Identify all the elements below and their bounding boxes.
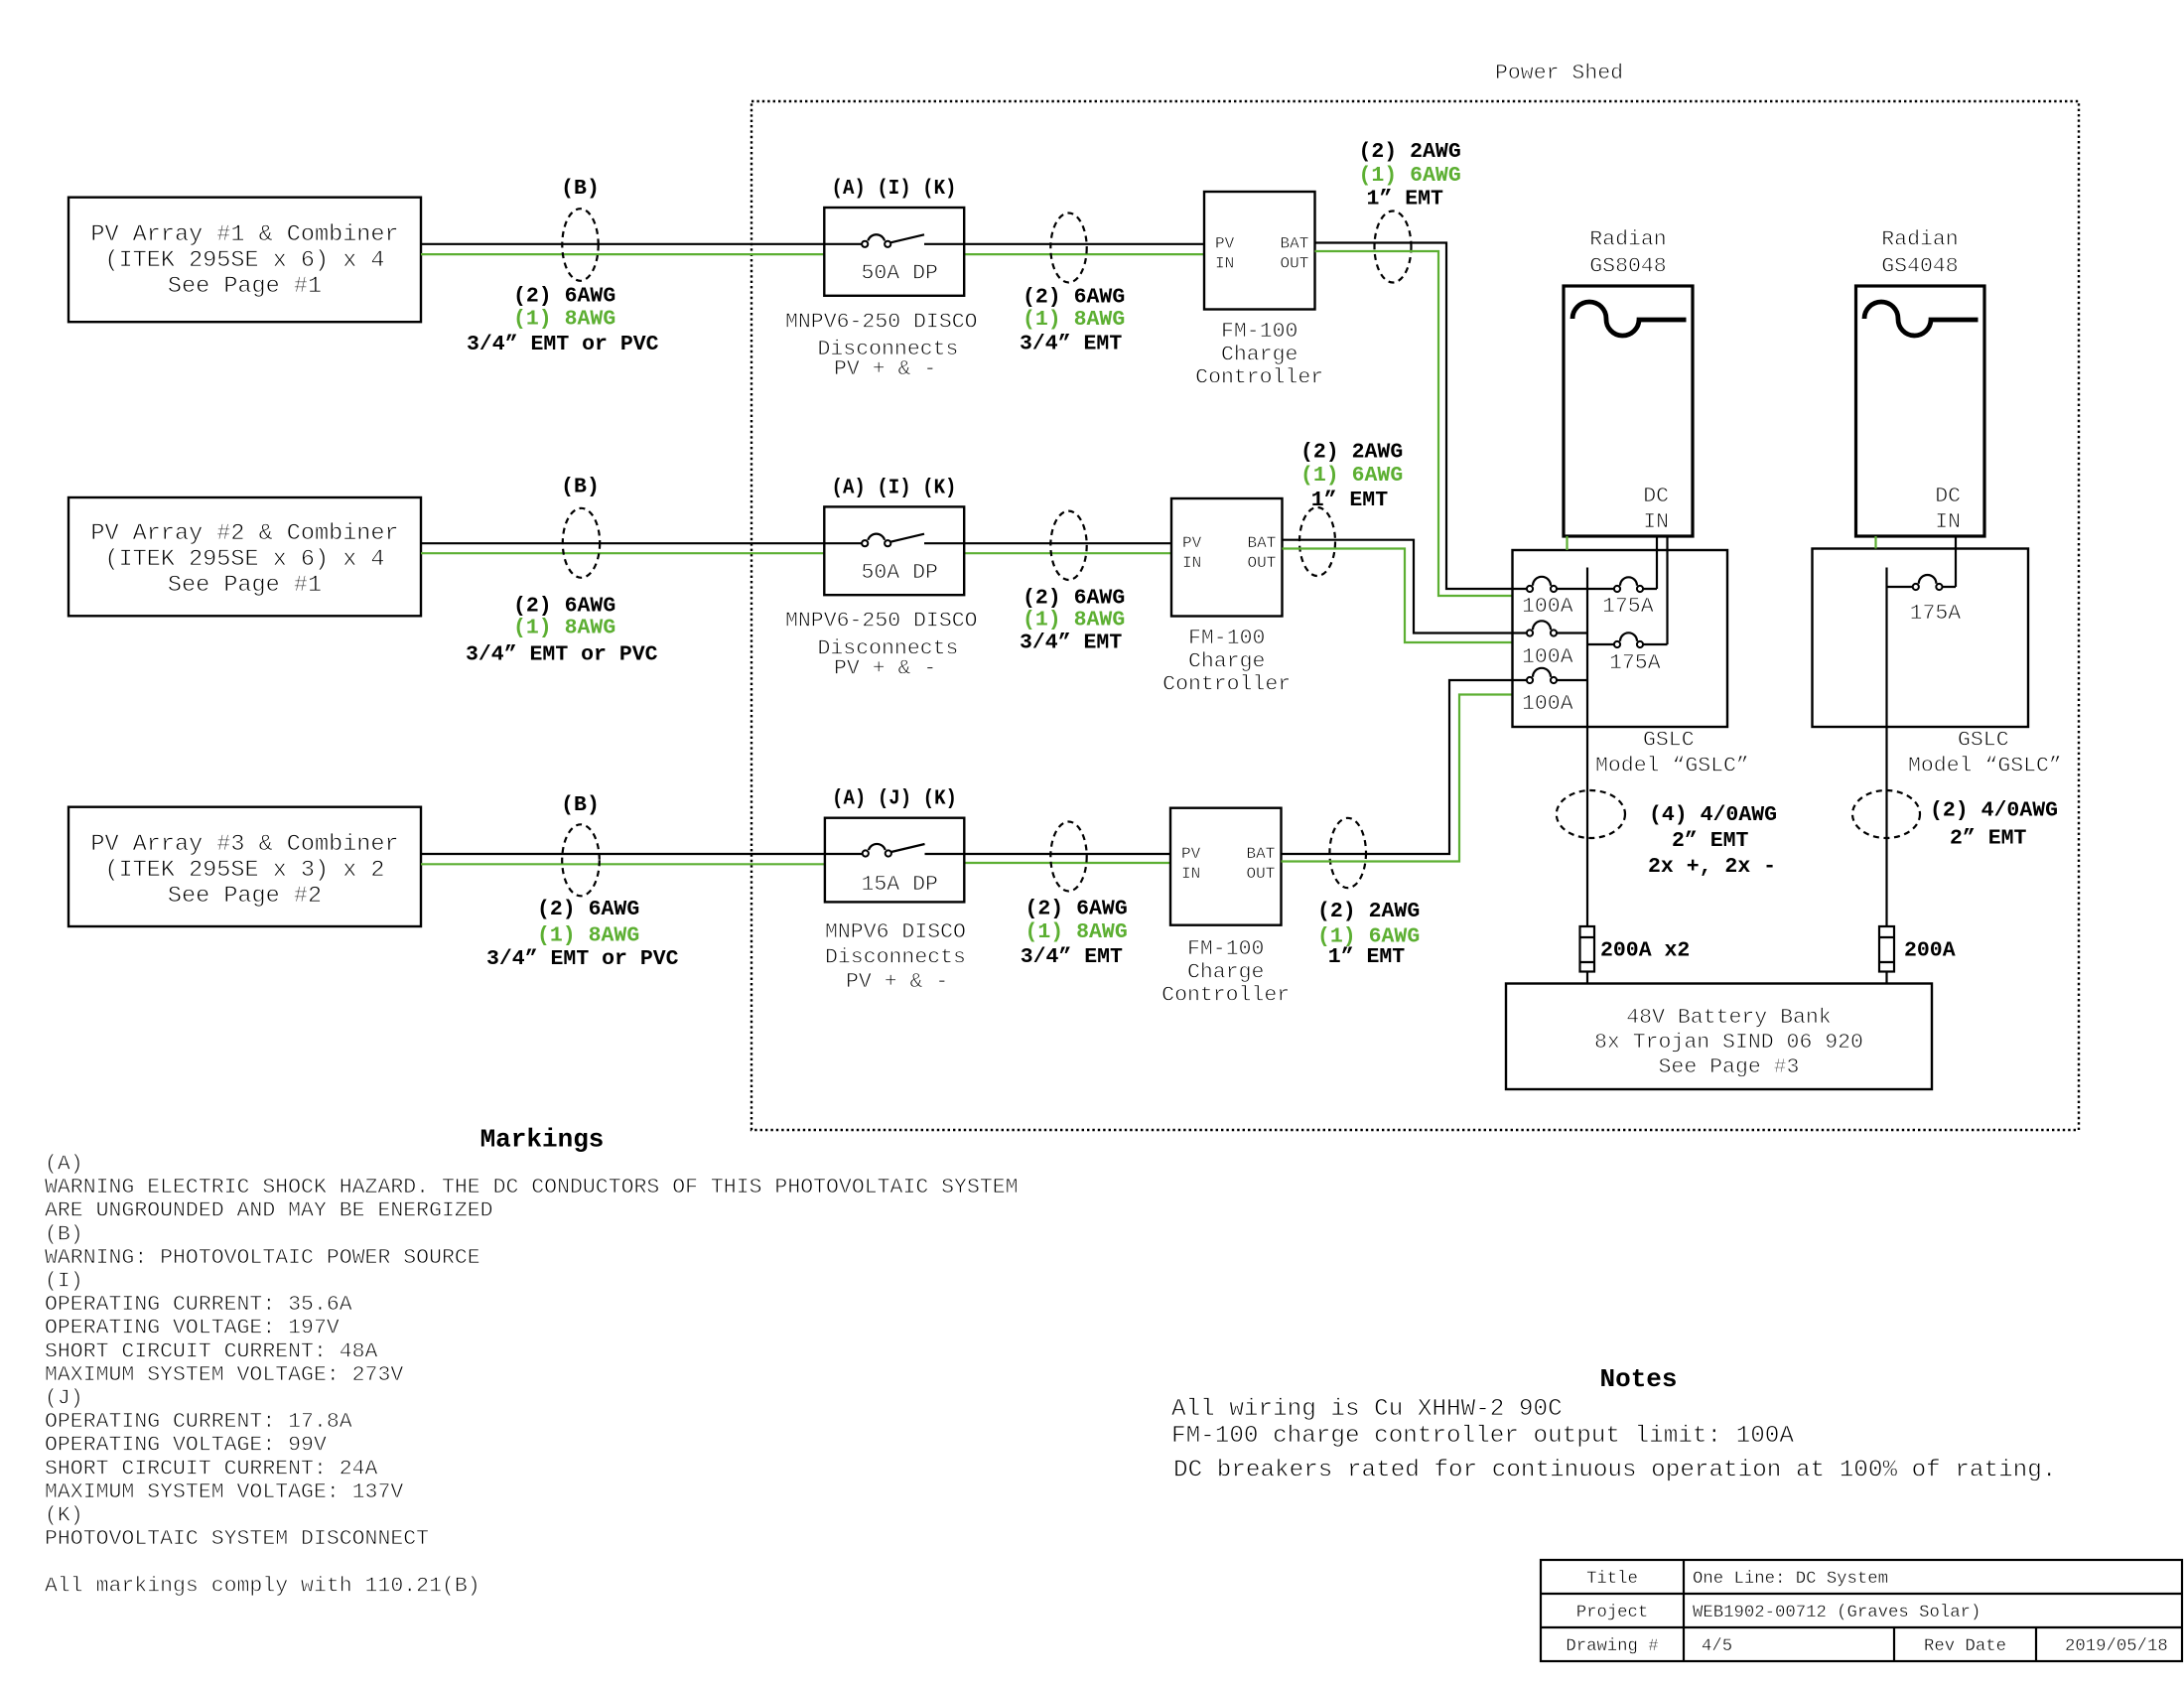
inverter Radian GS8048 box (1564, 286, 1693, 536)
GS8048 ground stub (green) (1566, 536, 1568, 550)
wire S3 to FM-100 #3 (green) (964, 862, 1170, 864)
wire PV3 to S3 (green) (421, 863, 825, 865)
switch S1 blade (890, 234, 924, 242)
svg-text:OUT: OUT (1281, 255, 1309, 273)
notes text (1171, 1396, 2056, 1483)
svg-text:Title: Title (1586, 1570, 1638, 1589)
svg-text:4/5: 4/5 (1702, 1637, 1732, 1656)
svg-text:50A DP: 50A DP (862, 262, 938, 286)
conduit ellipse row2 FM2 output (1299, 507, 1335, 576)
svg-text:(2) 4/0AWG: (2) 4/0AWG (1930, 799, 2058, 823)
svg-text:FM-100: FM-100 (1188, 627, 1265, 650)
svg-text:Notes: Notes (1599, 1364, 1677, 1394)
battery run 1 labels (1648, 803, 1777, 879)
svg-text:PV + & -: PV + & - (846, 970, 948, 994)
disconnect S1 labels (785, 310, 978, 381)
svg-text:(2) 2AWG: (2) 2AWG (1359, 140, 1461, 164)
wire GS8048 DC IN to 175A #2 (1666, 536, 1668, 644)
wire PV2 to S2 (green) (421, 552, 824, 554)
battery bank box (1506, 984, 1932, 1090)
GSLC load center #1 box (1513, 550, 1728, 727)
svg-text:MNPV6-250 DISCO: MNPV6-250 DISCO (785, 310, 978, 334)
conduit ellipse B1 (562, 209, 598, 281)
svg-text:All markings comply with 110.2: All markings comply with 110.21(B) (45, 1574, 480, 1598)
wire PV3 to S3 (black) (421, 853, 862, 855)
GS4048 inverter wave symbol (1864, 302, 1979, 336)
wire S1 to FM-100 #1 (black) (924, 243, 1204, 245)
svg-text:(J): (J) (45, 1387, 83, 1411)
svg-text:2019/05/18: 2019/05/18 (2065, 1637, 2168, 1656)
svg-text:(2) 6AWG: (2) 6AWG (1023, 286, 1125, 310)
svg-text:SHORT CIRCUIT CURRENT: 24A: SHORT CIRCUIT CURRENT: 24A (45, 1457, 378, 1480)
svg-text:2” EMT: 2” EMT (1672, 829, 1749, 853)
wire FM1 BAT OUT to GSLC (green) (1315, 251, 1513, 596)
charge controller FM-100 #3 box (1170, 808, 1282, 925)
svg-text:BAT: BAT (1247, 845, 1276, 863)
svg-text:MAXIMUM SYSTEM VOLTAGE: 137V: MAXIMUM SYSTEM VOLTAGE: 137V (45, 1480, 403, 1504)
PV array #1 combiner box (68, 198, 421, 323)
svg-text:PV Array #3 & Combiner: PV Array #3 & Combiner (90, 831, 398, 858)
svg-text:Radian: Radian (1589, 228, 1666, 252)
charge controller FM-100 #1 box (1204, 192, 1315, 310)
svg-text:PV + & -: PV + & - (834, 357, 936, 381)
svg-text:Radian: Radian (1881, 228, 1958, 252)
svg-text:2x +, 2x -: 2x +, 2x - (1648, 855, 1776, 879)
svg-text:Disconnects: Disconnects (825, 945, 966, 969)
svg-text:MNPV6-250 DISCO: MNPV6-250 DISCO (785, 610, 978, 633)
wire S1 to FM-100 #1 (green) (964, 253, 1204, 255)
switch S1 left terminal (862, 241, 868, 247)
switch S3 blade (891, 844, 925, 852)
svg-text:Model “GSLC”: Model “GSLC” (1908, 755, 2062, 778)
svg-text:50A DP: 50A DP (862, 561, 938, 585)
PV array #2 combiner box (68, 497, 421, 616)
svg-text:GS4048: GS4048 (1881, 255, 1958, 279)
charge controller FM-100 #2 box (1171, 498, 1283, 617)
svg-text:(1) 8AWG: (1) 8AWG (537, 924, 639, 948)
wire GS8048 DC IN to 175A #1 (1656, 536, 1658, 589)
conduit ellipse row1 FM1 output (1375, 211, 1412, 283)
svg-text:MNPV6 DISCO: MNPV6 DISCO (825, 920, 966, 944)
svg-text:175A: 175A (1910, 602, 1962, 626)
switch S3 right terminal (886, 850, 891, 856)
svg-text:Charge: Charge (1221, 343, 1297, 366)
wire size labels row3 FM3 output (1317, 900, 1420, 969)
GSLC1 DC bus (1586, 568, 1588, 927)
svg-text:Markings: Markings (480, 1124, 605, 1154)
svg-text:(1) 6AWG: (1) 6AWG (1300, 464, 1403, 488)
svg-text:(2) 6AWG: (2) 6AWG (1025, 897, 1128, 920)
FM-100 #1 labels (1195, 320, 1323, 390)
wire size labels row3 S3-FM3 (1021, 897, 1128, 969)
svg-text:(2) 6AWG: (2) 6AWG (513, 285, 615, 309)
svg-text:(ITEK 295SE x 6) x 4: (ITEK 295SE x 6) x 4 (104, 546, 384, 573)
svg-text:ARE UNGROUNDED AND MAY BE ENER: ARE UNGROUNDED AND MAY BE ENERGIZED (45, 1199, 493, 1223)
breaker 175A #2 (1587, 633, 1668, 675)
svg-text:Charge: Charge (1187, 960, 1264, 984)
wire size labels row1 FM1 output (1359, 140, 1461, 211)
svg-text:See Page #2: See Page #2 (168, 883, 322, 910)
svg-text:WARNING ELECTRIC SHOCK HAZARD.: WARNING ELECTRIC SHOCK HAZARD. THE DC CO… (45, 1176, 1019, 1199)
svg-text:See Page #1: See Page #1 (168, 572, 322, 599)
wire FM3 BAT OUT to GSLC (green) (1282, 695, 1513, 862)
svg-text:200A x2: 200A x2 (1600, 939, 1690, 963)
breaker 175A #1 (1587, 577, 1657, 619)
conduit ellipse B3 (562, 824, 600, 896)
GS4048 ground stub (green) (1874, 536, 1876, 549)
svg-text:(2) 6AWG: (2) 6AWG (537, 898, 639, 921)
GSLC load center #2 box (1813, 549, 2029, 728)
svg-text:(1) 6AWG: (1) 6AWG (1359, 164, 1461, 188)
switch S2 blade (890, 534, 924, 542)
inverter Radian GS4048 labels (1881, 228, 1958, 279)
wire FM2 BAT OUT to GSLC (green) (1283, 549, 1513, 643)
svg-text:3/4” EMT: 3/4” EMT (1020, 332, 1122, 355)
svg-text:3/4” EMT: 3/4” EMT (1020, 632, 1122, 655)
svg-text:PHOTOVOLTAIC SYSTEM DISCONNECT: PHOTOVOLTAIC SYSTEM DISCONNECT (45, 1527, 429, 1551)
markings text (45, 1153, 1019, 1599)
svg-text:GSLC: GSLC (1643, 729, 1695, 753)
svg-text:PV Array #1 & Combiner: PV Array #1 & Combiner (90, 221, 398, 248)
svg-text:100A: 100A (1522, 692, 1573, 716)
disconnect S2 labels (785, 610, 978, 681)
GS8048 DC IN label (1643, 485, 1669, 534)
svg-text:WEB1902-00712 (Graves Solar): WEB1902-00712 (Graves Solar) (1693, 1604, 1980, 1622)
svg-text:(4) 4/0AWG: (4) 4/0AWG (1649, 803, 1777, 827)
wire size labels row1 S1-FM1 (1020, 286, 1125, 356)
svg-text:(A) (I) (K): (A) (I) (K) (832, 476, 957, 499)
wire fuse F1 to battery (1586, 972, 1588, 984)
svg-text:3/4” EMT or PVC: 3/4” EMT or PVC (486, 947, 679, 971)
conduit ellipse B2 (563, 508, 600, 578)
breaker 175A GSLC2 (1887, 575, 1962, 626)
svg-text:BAT: BAT (1281, 235, 1309, 253)
svg-text:Rev Date: Rev Date (1924, 1637, 2006, 1656)
breaker 100A #3 (1513, 668, 1588, 716)
svg-text:GSLC: GSLC (1958, 729, 2009, 753)
disconnect S3 labels (825, 920, 966, 994)
wire FM1 BAT OUT to GSLC breaker 1 (black) (1315, 243, 1513, 590)
svg-text:2” EMT: 2” EMT (1950, 827, 2027, 851)
conduit ellipse battery run 2 (1852, 790, 1920, 838)
disconnect S2 box 50A DP (824, 506, 964, 595)
svg-text:(A): (A) (45, 1153, 83, 1177)
svg-text:175A: 175A (1602, 595, 1654, 619)
svg-text:FM-100: FM-100 (1221, 320, 1297, 344)
svg-text:See Page #3: See Page #3 (1659, 1055, 1800, 1079)
power shed dashed boundary (751, 101, 2079, 1130)
svg-text:SHORT CIRCUIT CURRENT: 48A: SHORT CIRCUIT CURRENT: 48A (45, 1339, 378, 1363)
svg-text:IN: IN (1181, 865, 1200, 883)
PV array #3 combiner box (68, 807, 421, 926)
svg-text:1” EMT: 1” EMT (1328, 945, 1406, 969)
svg-text:(ITEK 295SE x 6) x 4: (ITEK 295SE x 6) x 4 (104, 247, 384, 274)
wire size labels row2 FM2 output (1300, 441, 1403, 512)
svg-text:One Line: DC System: One Line: DC System (1693, 1570, 1888, 1589)
svg-text:PV: PV (1182, 534, 1202, 552)
svg-text:See Page #1: See Page #1 (168, 273, 322, 300)
wire S3 to FM-100 #3 (black) (925, 853, 1171, 855)
wire FM2 BAT OUT to GSLC breaker 2 (black) (1283, 540, 1513, 633)
svg-text:(1) 8AWG: (1) 8AWG (513, 617, 615, 640)
wire size labels row2 S2-FM2 (1020, 587, 1125, 655)
svg-text:IN: IN (1182, 554, 1201, 572)
svg-text:PV Array #2 & Combiner: PV Array #2 & Combiner (90, 520, 398, 547)
breaker 100A #1 (1513, 577, 1588, 619)
GSLC2 labels (1908, 729, 2062, 778)
svg-text:OPERATING VOLTAGE: 197V: OPERATING VOLTAGE: 197V (45, 1317, 340, 1340)
svg-text:Controller: Controller (1161, 984, 1290, 1008)
svg-text:OUT: OUT (1248, 554, 1277, 572)
svg-text:48V Battery Bank: 48V Battery Bank (1626, 1006, 1831, 1030)
wire PV1 ground (green) to S1 (421, 253, 824, 255)
svg-text:15A DP: 15A DP (862, 873, 938, 897)
svg-text:BAT: BAT (1248, 534, 1277, 552)
svg-text:3/4” EMT or PVC: 3/4” EMT or PVC (467, 333, 659, 356)
svg-text:(A) (I) (K): (A) (I) (K) (832, 177, 957, 201)
svg-text:8x Trojan SIND 06 920: 8x Trojan SIND 06 920 (1594, 1031, 1863, 1055)
svg-text:200A: 200A (1904, 939, 1956, 963)
wire size labels row3 B (486, 898, 679, 971)
svg-text:Project: Project (1576, 1604, 1649, 1622)
svg-text:(ITEK 295SE x 3) x 2: (ITEK 295SE x 3) x 2 (104, 857, 384, 884)
svg-text:(B): (B) (561, 177, 600, 201)
switch S3 arc (869, 844, 886, 850)
svg-text:MAXIMUM SYSTEM VOLTAGE: 273V: MAXIMUM SYSTEM VOLTAGE: 273V (45, 1363, 403, 1387)
battery run 2 labels (1930, 799, 2058, 851)
switch S2 right terminal (885, 540, 890, 546)
wire S2 to FM-100 #2 (green) (964, 552, 1171, 554)
svg-text:GS8048: GS8048 (1589, 255, 1666, 279)
wire PV1 positive (black) to disconnect S1 (421, 243, 862, 245)
svg-text:FM-100 charge controller outpu: FM-100 charge controller output limit: 1… (1171, 1423, 1794, 1450)
svg-text:(I): (I) (45, 1270, 83, 1294)
switch S3 left terminal (863, 850, 869, 856)
wire GS4048 DC IN to 175A (1955, 536, 1957, 587)
title block table (1541, 1560, 2182, 1661)
svg-text:FM-100: FM-100 (1187, 937, 1264, 961)
wire FM3 BAT OUT to GSLC breaker 3 (black) (1282, 680, 1513, 854)
svg-text:(1) 8AWG: (1) 8AWG (1025, 920, 1128, 944)
GS4048 DC IN label (1935, 485, 1961, 534)
switch S1 arc (868, 234, 885, 240)
svg-text:Controller: Controller (1162, 673, 1291, 697)
inverter Radian GS8048 labels (1589, 228, 1666, 279)
breaker 100A #2 (1513, 621, 1588, 669)
svg-text:OPERATING VOLTAGE: 99V: OPERATING VOLTAGE: 99V (45, 1434, 327, 1458)
conduit ellipse row1 S1-FM1 (1050, 213, 1086, 283)
svg-text:(2) 2AWG: (2) 2AWG (1317, 900, 1420, 923)
GS8048 inverter wave symbol (1572, 302, 1687, 336)
wire PV2 to S2 (black) (421, 542, 862, 544)
svg-text:Controller: Controller (1195, 366, 1323, 390)
svg-text:PV + & -: PV + & - (834, 656, 936, 680)
svg-text:3/4” EMT: 3/4” EMT (1021, 945, 1123, 969)
svg-text:Drawing #: Drawing # (1566, 1637, 1658, 1656)
svg-text:(B): (B) (45, 1222, 83, 1246)
svg-text:3/4” EMT or PVC: 3/4” EMT or PVC (466, 642, 658, 666)
svg-text:IN: IN (1935, 510, 1961, 534)
svg-text:OPERATING CURRENT: 17.8A: OPERATING CURRENT: 17.8A (45, 1410, 352, 1434)
svg-text:Model “GSLC”: Model “GSLC” (1595, 755, 1749, 778)
svg-text:175A: 175A (1609, 651, 1661, 675)
fuse F2 200A (1879, 926, 1956, 972)
svg-text:(A) (J) (K): (A) (J) (K) (832, 787, 957, 811)
title block text (1566, 1570, 2167, 1656)
svg-text:PV: PV (1181, 845, 1201, 863)
svg-text:All wiring is Cu XHHW-2 90C: All wiring is Cu XHHW-2 90C (1171, 1396, 1563, 1423)
wire fuse F2 to battery (1885, 972, 1887, 984)
svg-text:IN: IN (1643, 510, 1669, 534)
svg-text:(1) 8AWG: (1) 8AWG (513, 308, 615, 332)
FM-100 #2 labels (1162, 627, 1291, 697)
switch S2 arc (868, 534, 885, 540)
svg-text:(1) 8AWG: (1) 8AWG (1023, 308, 1125, 332)
svg-text:DC breakers rated for continuo: DC breakers rated for continuous operati… (1173, 1458, 2056, 1484)
fuse F1 200A x2 (1580, 926, 1691, 972)
svg-text:DC: DC (1935, 485, 1961, 508)
svg-text:(B): (B) (561, 476, 600, 499)
svg-text:(K): (K) (45, 1504, 83, 1528)
disconnect S1 box 50A DP (824, 208, 964, 296)
switch S1 right terminal (885, 241, 890, 247)
svg-text:100A: 100A (1522, 645, 1573, 669)
svg-text:IN: IN (1215, 255, 1234, 273)
svg-text:DC: DC (1643, 485, 1669, 508)
wire S2 to FM-100 #2 (black) (924, 542, 1171, 544)
wire size labels row2 B (466, 595, 658, 667)
svg-text:(2) 2AWG: (2) 2AWG (1300, 441, 1403, 465)
svg-text:Power Shed: Power Shed (1495, 62, 1623, 85)
svg-text:WARNING: PHOTOVOLTAIC POWER SO: WARNING: PHOTOVOLTAIC POWER SOURCE (45, 1246, 480, 1270)
disconnect S3 box 15A DP (825, 818, 964, 903)
conduit ellipse battery run 1 (1557, 790, 1625, 838)
svg-text:(2) 6AWG: (2) 6AWG (1023, 587, 1125, 611)
inverter Radian GS4048 box (1856, 286, 1985, 536)
conduit ellipse row3 FM3 output (1329, 818, 1366, 888)
conduit ellipse row2 S2-FM2 (1050, 511, 1086, 580)
svg-text:OUT: OUT (1247, 865, 1276, 883)
svg-text:PV: PV (1215, 235, 1235, 253)
svg-text:1” EMT: 1” EMT (1367, 187, 1444, 211)
svg-text:(B): (B) (561, 793, 600, 817)
FM-100 #3 labels (1161, 937, 1290, 1008)
svg-text:Charge: Charge (1188, 649, 1265, 673)
svg-text:(1) 8AWG: (1) 8AWG (1023, 609, 1125, 633)
GSLC1 labels (1595, 729, 1749, 778)
svg-text:(2) 6AWG: (2) 6AWG (513, 595, 615, 619)
svg-text:OPERATING CURRENT: 35.6A: OPERATING CURRENT: 35.6A (45, 1293, 352, 1317)
svg-text:100A: 100A (1522, 595, 1573, 619)
GSLC2 DC bus (1885, 568, 1887, 927)
conduit ellipse row3 S3-FM3 (1050, 822, 1086, 892)
switch S2 left terminal (862, 540, 868, 546)
